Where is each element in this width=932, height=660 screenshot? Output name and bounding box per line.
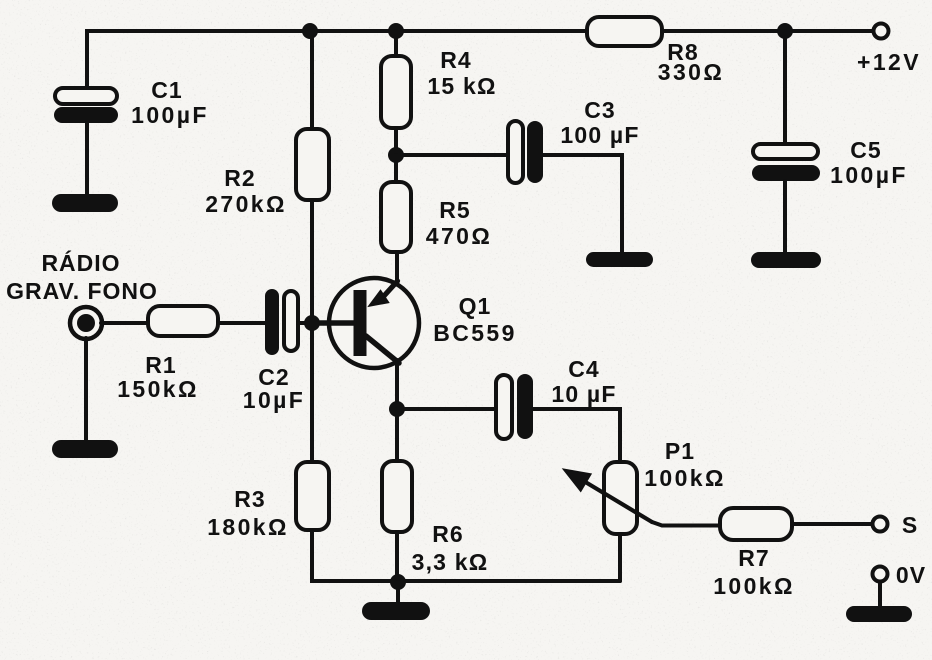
wire C4 to P1 — [533, 409, 620, 461]
svg-text:R1: R1 — [145, 352, 176, 378]
capacitor C2 — [265, 289, 298, 355]
resistor R8 — [587, 17, 662, 46]
svg-text:270kΩ: 270kΩ — [205, 191, 287, 217]
wire R7 to S — [792, 522, 871, 526]
wire node to ground — [396, 582, 400, 602]
capacitor C3 — [508, 121, 543, 183]
node bottom rail ground — [390, 574, 406, 590]
resistor R5 — [381, 182, 411, 252]
terminal input RADIO — [70, 307, 102, 339]
svg-text:RÁDIO: RÁDIO — [41, 249, 120, 276]
wire input to R1 — [101, 321, 148, 325]
svg-text:100kΩ: 100kΩ — [713, 573, 795, 599]
svg-text:C5: C5 — [850, 137, 881, 163]
svg-text:R5: R5 — [439, 197, 470, 223]
wire C5 to ground — [783, 181, 787, 252]
resistor R3 — [296, 462, 329, 530]
svg-text:R2: R2 — [224, 165, 255, 191]
resistor R1 — [148, 306, 218, 336]
wire R3 to bottom rail — [312, 530, 620, 581]
wire R2 column upper — [310, 31, 314, 129]
wire P1 wiper to R7 — [652, 522, 720, 526]
resistor R7 — [720, 508, 792, 540]
svg-text:100µF: 100µF — [131, 102, 209, 128]
svg-text:P1: P1 — [665, 438, 695, 464]
ground under C5 — [751, 252, 821, 268]
wire R4 to node — [394, 128, 398, 155]
node top R2 column — [302, 23, 318, 39]
ground under input — [52, 440, 118, 458]
wire base node to R3 — [310, 323, 314, 462]
wire node to R6 — [395, 409, 399, 461]
svg-text:15 kΩ: 15 kΩ — [427, 73, 496, 99]
wire input to ground — [84, 338, 88, 440]
wire R8 to +12V — [662, 29, 873, 33]
svg-text:10µF: 10µF — [243, 387, 305, 413]
wire R6 to bottom rail — [395, 532, 399, 581]
ground under C3 — [586, 252, 653, 267]
svg-text:150kΩ: 150kΩ — [117, 376, 199, 402]
svg-text:GRAV. FONO: GRAV. FONO — [6, 278, 158, 304]
wire C5 column — [783, 31, 787, 144]
node top R4 column — [388, 23, 404, 39]
svg-text:10 µF: 10 µF — [551, 381, 616, 407]
svg-text:C3: C3 — [584, 97, 615, 123]
svg-text:470Ω: 470Ω — [426, 223, 492, 249]
wire R5 to Q1 emitter — [395, 252, 399, 288]
ground under 0V — [846, 606, 912, 622]
wire C1 to ground — [85, 123, 89, 196]
node top C5 column — [777, 23, 793, 39]
node collector C4 — [389, 401, 405, 417]
svg-text:0V: 0V — [896, 562, 926, 588]
node base — [304, 315, 320, 331]
terminal +12V — [874, 24, 889, 39]
wire R2 to base node — [310, 200, 314, 323]
svg-text:R3: R3 — [234, 486, 265, 512]
svg-text:R6: R6 — [432, 521, 463, 547]
ground under C1 — [52, 194, 118, 212]
svg-text:100 µF: 100 µF — [560, 122, 639, 148]
wire R5 — [394, 155, 398, 182]
ground bottom center — [362, 602, 430, 620]
wire C2 to base node — [298, 321, 312, 325]
capacitor C4 — [496, 374, 533, 439]
wire C3 to ground — [543, 155, 622, 252]
svg-text:100kΩ: 100kΩ — [644, 465, 726, 491]
svg-text:180kΩ: 180kΩ — [207, 514, 289, 540]
capacitor C5 — [752, 144, 820, 181]
transistor Q1 — [320, 278, 419, 368]
svg-text:BC559: BC559 — [433, 320, 517, 346]
svg-text:+12V: +12V — [857, 49, 921, 75]
svg-text:R7: R7 — [738, 545, 769, 571]
wire top rail left segment — [87, 31, 587, 88]
svg-text:R4: R4 — [440, 47, 471, 73]
wire collector node to C4 — [397, 407, 496, 411]
resistor R4 — [381, 56, 411, 128]
capacitor C1 — [54, 88, 118, 123]
svg-text:C1: C1 — [151, 77, 182, 103]
wire R4 column top — [394, 31, 398, 56]
wire 0V to ground — [878, 583, 882, 608]
svg-text:S: S — [902, 512, 918, 538]
svg-text:C4: C4 — [568, 356, 599, 382]
terminal S — [873, 517, 888, 532]
svg-text:100µF: 100µF — [830, 162, 908, 188]
wire node to C3 — [396, 153, 508, 157]
potentiometer P1 — [564, 462, 653, 534]
node R4 R5 C3 — [388, 147, 404, 163]
resistor R2 — [296, 129, 329, 200]
wire Q1 collector down — [395, 360, 399, 409]
terminal 0V — [873, 567, 888, 582]
wire P1 bottom — [618, 534, 622, 581]
resistor R6 — [382, 461, 412, 532]
svg-text:3,3 kΩ: 3,3 kΩ — [412, 549, 489, 575]
wire R1 to C2 — [218, 321, 265, 325]
svg-text:Q1: Q1 — [459, 293, 492, 319]
svg-text:330Ω: 330Ω — [658, 59, 724, 85]
